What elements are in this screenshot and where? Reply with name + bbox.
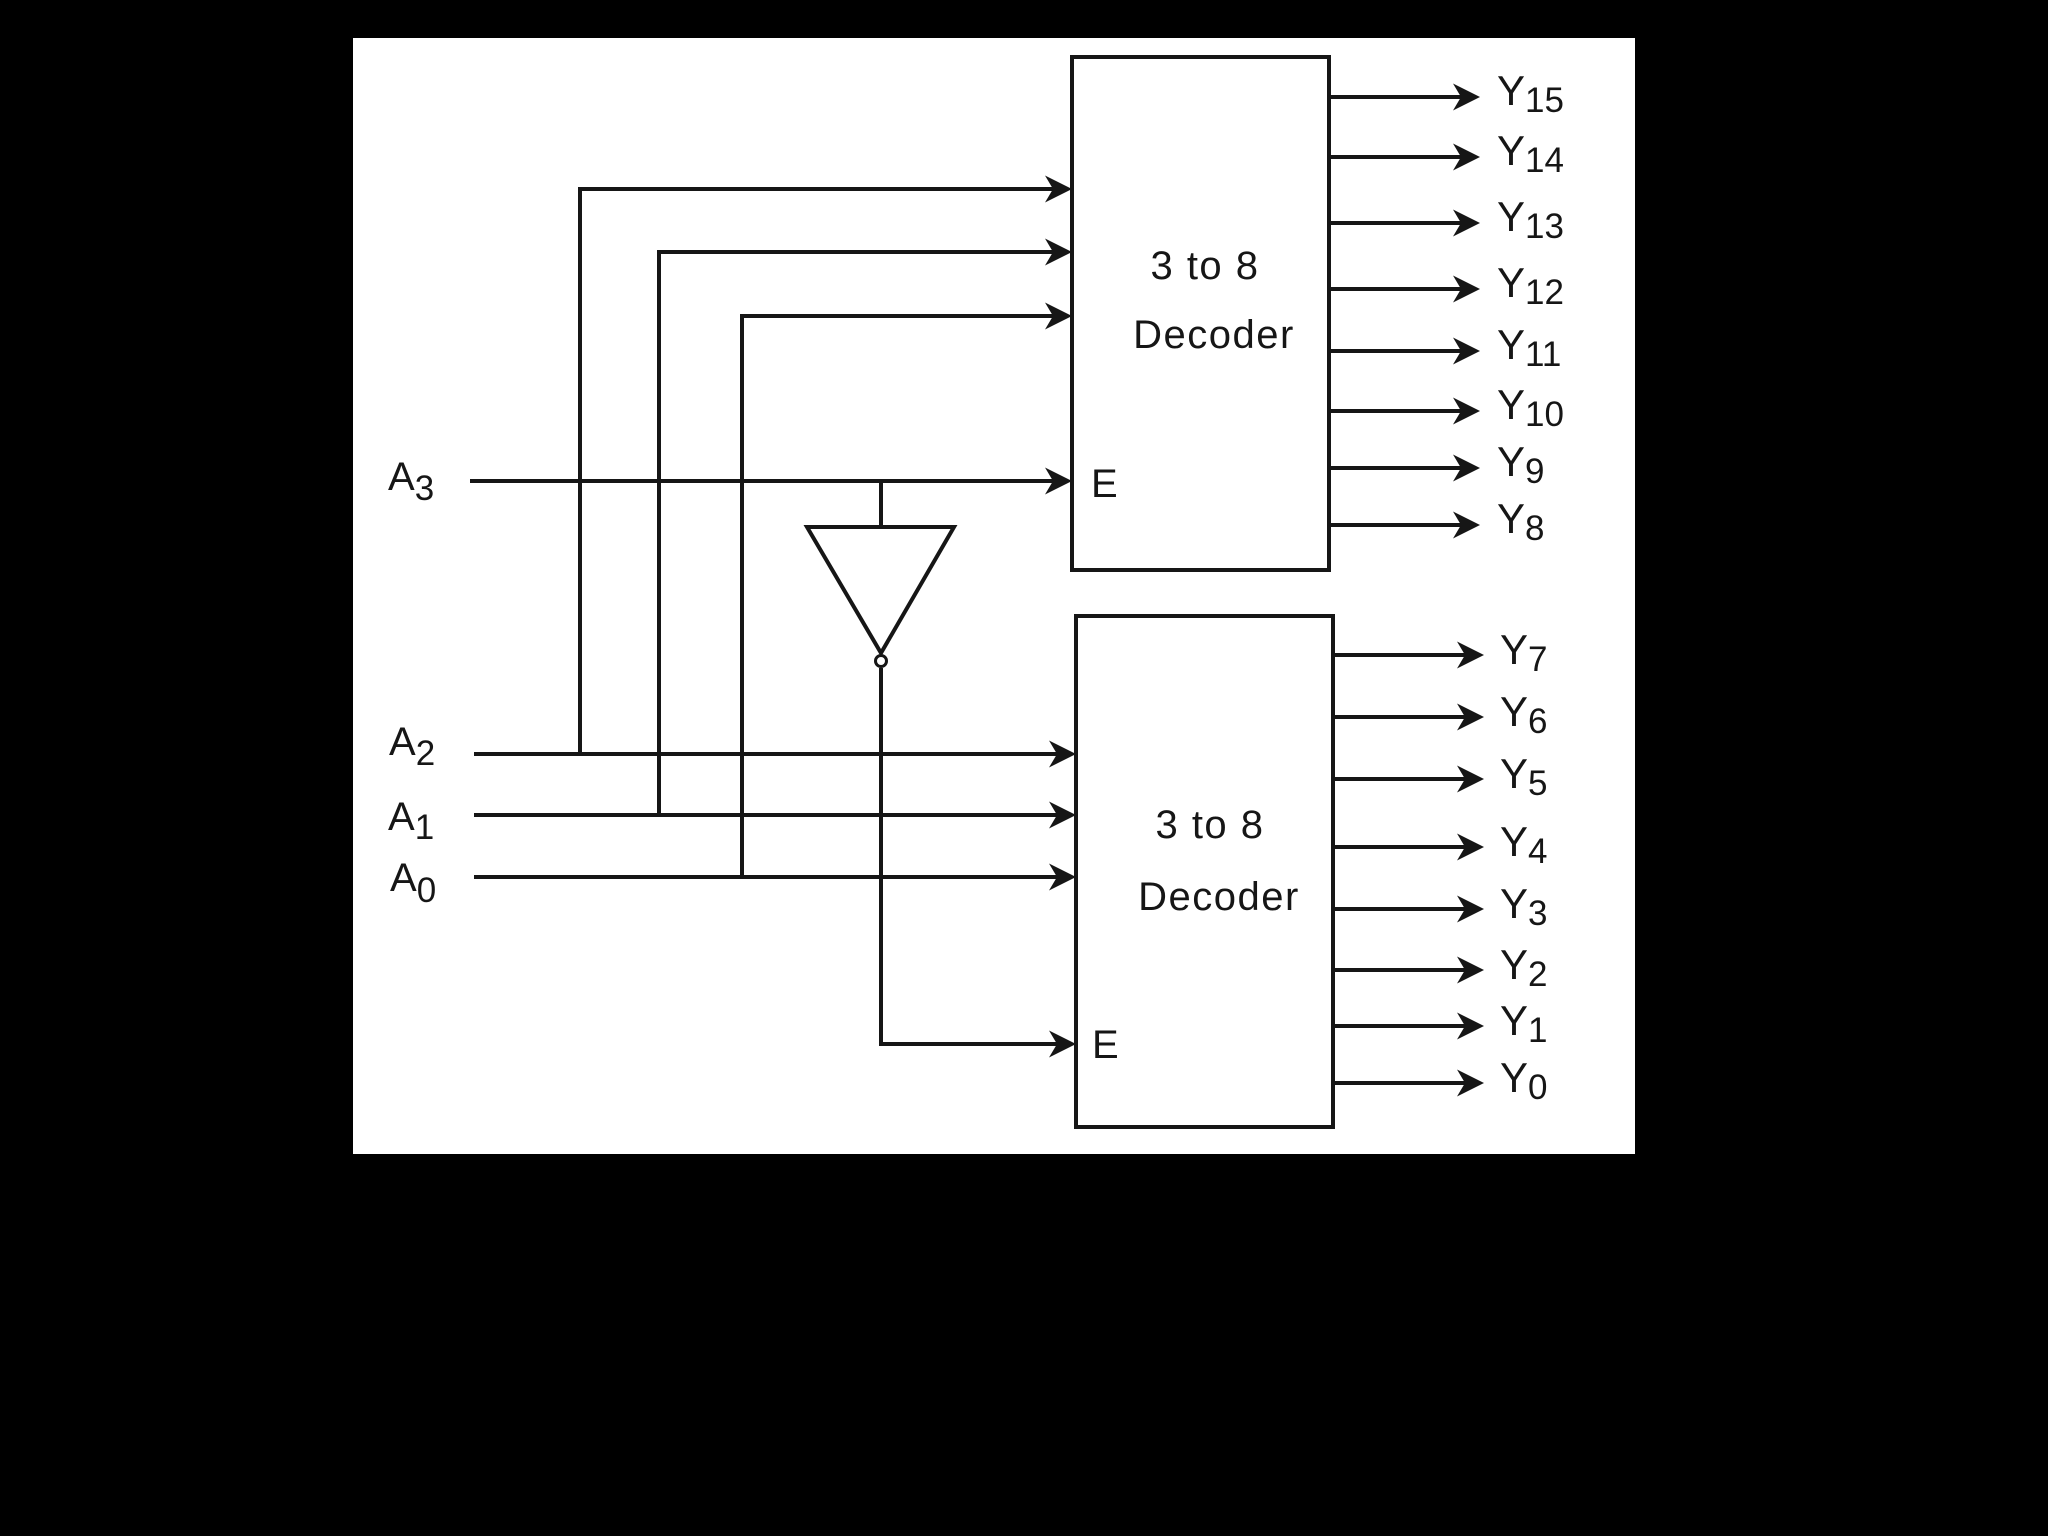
wire A2 to U2 input <box>474 741 1076 768</box>
output wire Y6 <box>1333 704 1484 731</box>
output wire Y10 <box>1329 398 1480 425</box>
output wire Y7 <box>1333 642 1484 669</box>
output wire Y4 <box>1333 834 1484 861</box>
wire A1 to U2 input <box>474 802 1076 829</box>
svg-text:E: E <box>1091 462 1118 506</box>
output wire Y14 <box>1329 144 1480 171</box>
decoder U1 (top 3 to 8 Decoder box) <box>1072 57 1329 570</box>
svg-text:Decoder: Decoder <box>1138 875 1300 919</box>
svg-text:Decoder: Decoder <box>1133 313 1295 357</box>
wire A1 branch to U1 input <box>659 239 1072 816</box>
svg-text:E: E <box>1092 1023 1119 1067</box>
output wire Y0 <box>1333 1070 1484 1097</box>
svg-text:3 to 8: 3 to 8 <box>1150 244 1259 288</box>
decoder U2 (bottom 3 to 8 Decoder box) <box>1076 616 1333 1127</box>
output wire Y2 <box>1333 957 1484 984</box>
wire A0 branch to U1 input <box>742 303 1072 878</box>
output wire Y11 <box>1329 338 1480 365</box>
wire inverter output to U2 enable E <box>881 668 1076 1058</box>
wire A2 branch to U1 input <box>580 176 1072 755</box>
wire A3 to U1 enable E <box>470 468 1072 495</box>
inverter (NOT gate) <box>807 527 954 667</box>
wire A3 branch down to inverter input <box>879 481 883 527</box>
output wire Y3 <box>1333 896 1484 923</box>
output wire Y5 <box>1333 766 1484 793</box>
output wire Y9 <box>1329 455 1480 482</box>
output wire Y12 <box>1329 276 1480 303</box>
output wire Y13 <box>1329 210 1480 237</box>
output wire Y1 <box>1333 1013 1484 1040</box>
output wire Y8 <box>1329 512 1480 539</box>
wire A0 to U2 input <box>474 864 1076 891</box>
svg-text:3 to 8: 3 to 8 <box>1155 803 1264 847</box>
output wire Y15 <box>1329 84 1480 111</box>
